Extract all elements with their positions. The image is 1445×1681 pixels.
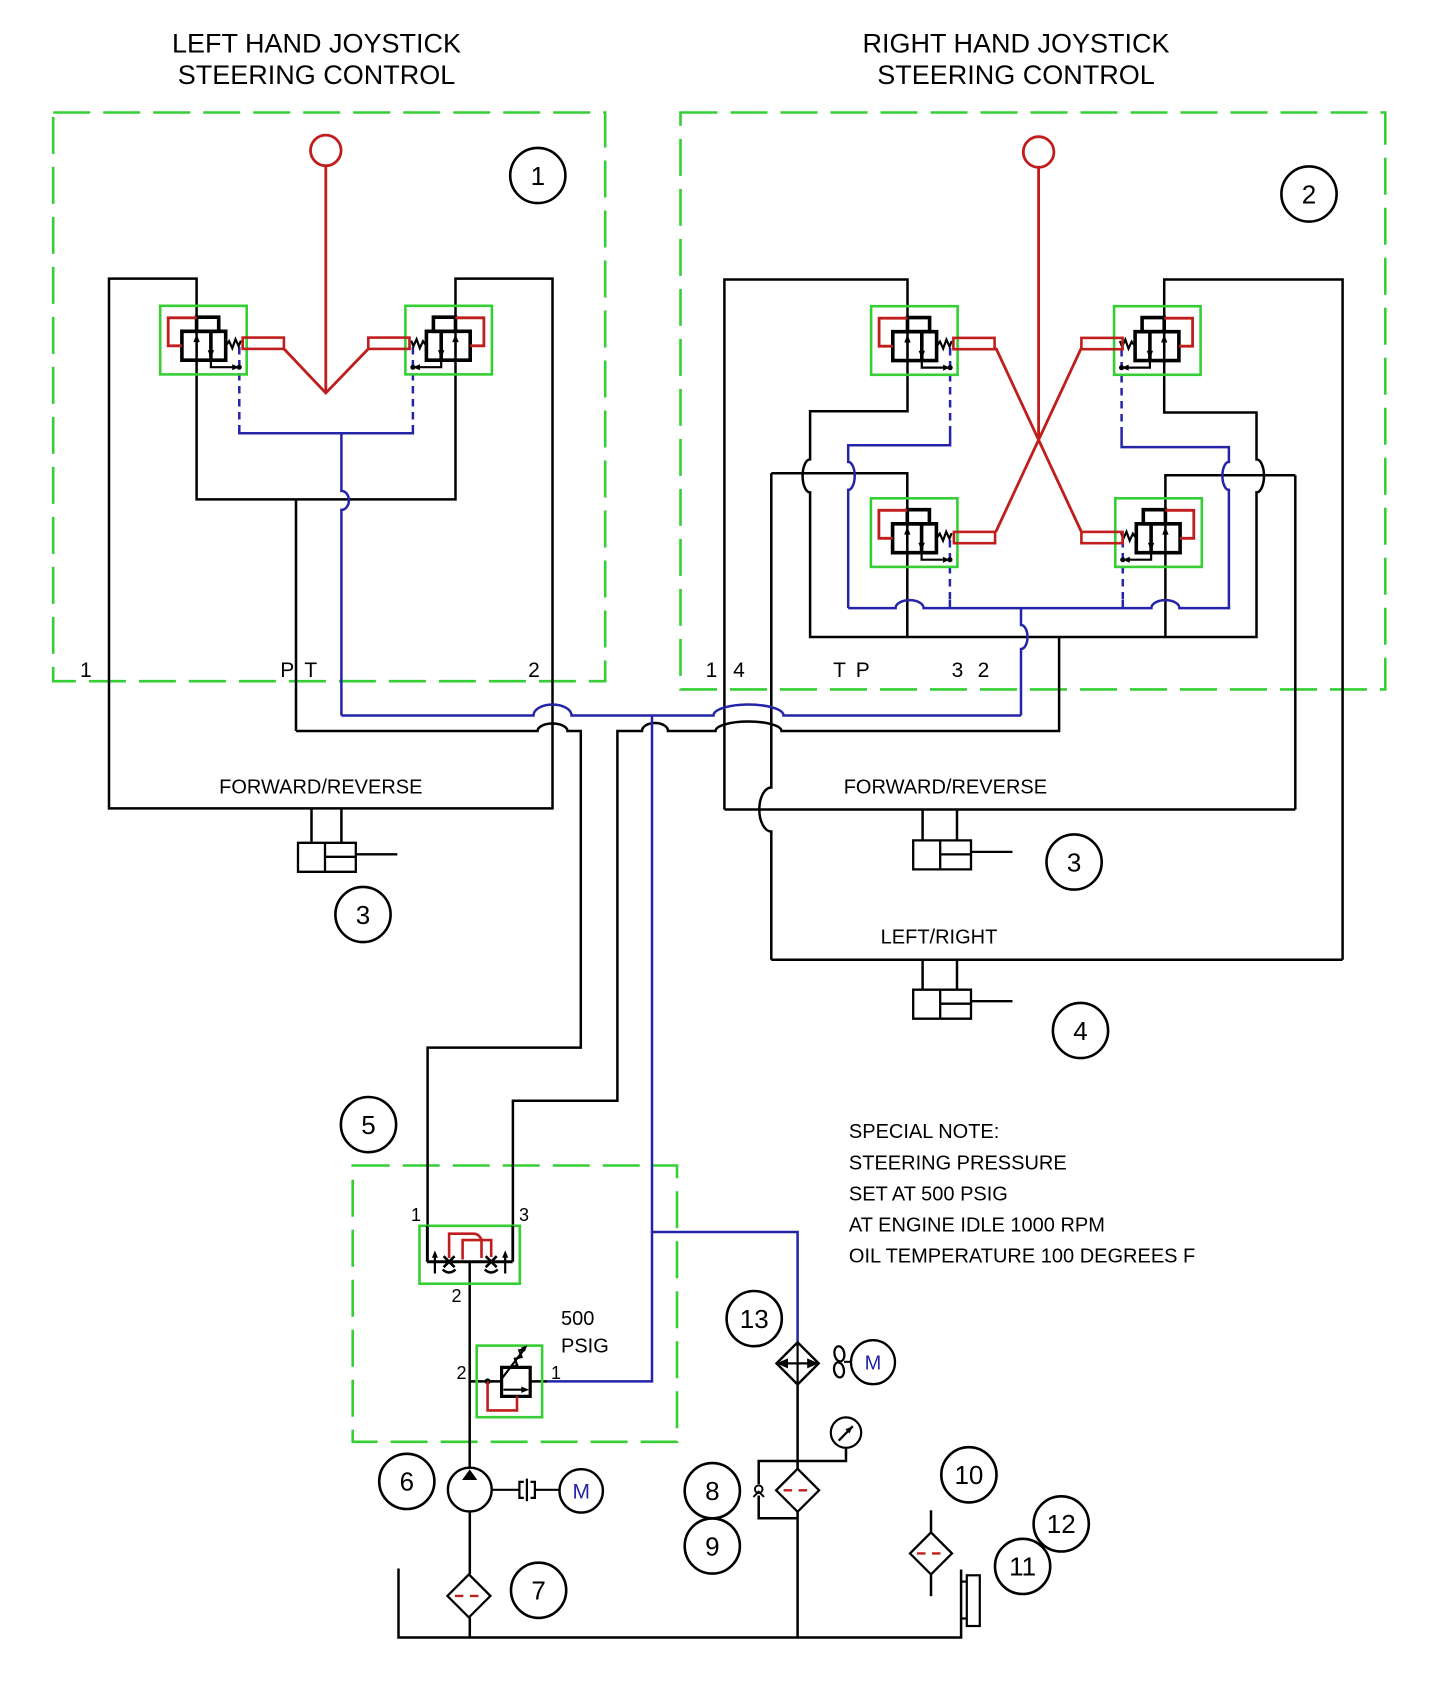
steering cylinder 3 left [298,843,397,872]
wire heat exchanger to filter8 [796,1385,799,1469]
left joystick assembly enclosure (dashed) [53,113,605,682]
pilot line right T riser [1021,608,1028,715]
wire right LEFT/RIGHT line [771,958,1342,961]
svg-text:12: 12 [1047,1509,1076,1539]
svg-text:STEERING PRESSURE: STEERING PRESSURE [849,1152,1067,1174]
balloon callout item10 [941,1447,996,1502]
wire left P port drop [295,499,298,731]
balloon callout item11 [995,1539,1050,1594]
svg-text:STEERING CONTROL: STEERING CONTROL [877,60,1155,90]
pilot line right TL drain (dashed) [949,348,952,432]
reservoir tank outline [399,1569,962,1638]
breather filler line upper [930,1510,933,1532]
pilot line shared T main [341,705,1021,716]
pressure gauge G1 [831,1417,861,1447]
shuttle valve item5 body [420,1226,520,1284]
wire pump to filter7 [469,1511,472,1574]
pressure reducing valve body (500 PSIG) [477,1345,542,1417]
svg-text:T: T [304,659,317,682]
svg-text:LEFT HAND JOYSTICK: LEFT HAND JOYSTICK [172,28,461,58]
wire filter bypass lower [759,1496,798,1519]
pilot valve L1 (left joystick left) [160,306,247,375]
joystick 2 BL rod [954,532,995,543]
balloon callout item3 right [1047,834,1102,889]
svg-text:1: 1 [551,1363,561,1383]
pilot valve L2 (left joystick right) [405,306,492,375]
wire left P supply to shuttle port1 [296,724,581,1262]
svg-text:FORWARD/REVERSE: FORWARD/REVERSE [844,777,1047,799]
wire right FR cylinder stub B [956,810,959,841]
svg-text:1: 1 [706,659,718,682]
return filter item8/9 diamond [776,1469,819,1512]
node junction dot port2/pilot [485,1378,491,1384]
joystick 2 stick [1037,167,1040,439]
pilot branch to heat exchanger [652,1232,798,1342]
wire reducing valve port2 link [470,1380,502,1383]
svg-text:2: 2 [1302,179,1316,209]
svg-text:2: 2 [528,659,540,682]
shuttle valve red passage outer [449,1234,481,1258]
valve block item5 enclosure (dashed) [353,1166,677,1442]
svg-text:7: 7 [531,1576,545,1606]
coupling symbol [519,1482,523,1498]
pilot line left valveL1 drain (dashed) [238,347,241,425]
balloon callout item6 [379,1454,434,1509]
balloon callout item5 [341,1097,396,1152]
steering cylinder 4 [913,990,1012,1019]
wire right LR cylinder stub A [921,960,924,990]
svg-text:2: 2 [456,1363,466,1383]
joystick 2 X-linkage b [996,348,1082,532]
joystick 1 left rod [243,338,284,349]
fan motor M2 [851,1340,895,1384]
balloon callout item8 [685,1463,740,1518]
svg-text:SET AT 500 PSIG: SET AT 500 PSIG [849,1183,1008,1205]
pilot line right BR drain tail [1122,600,1125,608]
svg-text:1: 1 [531,161,545,191]
svg-text:3: 3 [952,659,964,682]
wire right lower-left link [771,473,907,637]
svg-text:M: M [865,1352,882,1374]
svg-text:3: 3 [1067,847,1081,877]
svg-text:2: 2 [978,659,990,682]
wire right joystick upper outline [724,280,1342,960]
svg-text:OIL TEMPERATURE 100 DEGREES F: OIL TEMPERATURE 100 DEGREES F [849,1245,1195,1267]
check valve CV1 [753,1485,764,1497]
svg-text:4: 4 [1073,1016,1087,1046]
svg-text:2: 2 [451,1286,461,1306]
electric motor M1 [560,1469,603,1512]
joystick 2 X-linkage a [996,348,1082,532]
svg-text:STEERING CONTROL: STEERING CONTROL [178,60,456,90]
motor shaft [535,1489,560,1491]
pilot line right BL drain tail [949,600,952,608]
balloon callout item3 left [335,887,390,942]
pilot line right TR drain (dashed) [1120,349,1123,432]
pilot line right drain header [848,600,1230,608]
svg-text:13: 13 [740,1304,769,1334]
balloon callout item13 [727,1291,782,1346]
pilot supply main drop [547,716,652,1382]
wire filter8 to tank [796,1512,799,1638]
joystick 1 knob [311,135,342,166]
svg-text:11: 11 [1009,1552,1036,1582]
svg-text:6: 6 [400,1467,414,1497]
balloon callout item2 [1281,166,1336,221]
svg-text:500: 500 [561,1308,594,1330]
svg-text:AT ENGINE IDLE 1000 RPM: AT ENGINE IDLE 1000 RPM [849,1214,1105,1236]
pump shaft [492,1489,520,1491]
svg-text:4: 4 [733,659,745,682]
pilot line right TL drain corner [848,432,950,608]
wire left joystick body outline [109,279,553,809]
wire left cylinder stub A [310,808,313,843]
wire gauge stub [798,1448,846,1461]
balloon callout item1 [510,148,565,203]
hydraulic pump P1 [448,1468,492,1512]
wire right P supply to shuttle port3 [513,637,1059,1262]
pilot line right BL drain (dashed) [949,540,952,600]
pilot line left drain header [239,425,413,433]
wire reducing valve port1 black stub [530,1380,547,1383]
balloon callout item7 [511,1563,566,1618]
right joystick assembly enclosure (dashed) [681,113,1386,690]
cooling fan blades [833,1345,851,1378]
svg-text:1: 1 [411,1205,421,1225]
pilot line right TR drain corner [1122,432,1229,608]
oil level gauge LG1 [961,1575,980,1626]
svg-text:FORWARD/REVERSE: FORWARD/REVERSE [219,777,422,799]
svg-text:M: M [572,1481,590,1504]
wire left cylinder stub B [340,808,343,843]
wire right FORWARD/REVERSE line [724,808,1295,811]
svg-text:PSIG: PSIG [561,1335,609,1357]
pilot valve TR (right joystick) [1114,306,1201,375]
svg-text:1: 1 [80,659,92,682]
joystick 1 right rod [368,338,409,349]
svg-text:10: 10 [954,1460,983,1490]
joystick 1 V-linkage [284,349,368,393]
svg-text:RIGHT HAND JOYSTICK: RIGHT HAND JOYSTICK [862,28,1169,58]
joystick 2 knob [1023,137,1054,168]
wire right LR cylinder stub B [956,960,959,990]
balloon callout item12 [1034,1496,1089,1551]
pilot valve BR (right joystick) [1115,498,1202,567]
svg-text:P: P [280,659,294,682]
pilot line right BR drain (dashed) [1122,540,1125,600]
breather filler line lower [930,1574,933,1596]
balloon callout item9 [685,1518,740,1573]
pilot line left valveL2 drain (dashed) [412,347,415,425]
svg-text:8: 8 [705,1476,719,1506]
balloon callout item4 [1053,1003,1108,1058]
svg-text:T: T [833,659,846,682]
wire right FR right side [1294,475,1297,809]
shuttle valve red passage inner [463,1240,492,1259]
wire filter7 to tank [469,1618,472,1638]
suction strainer item7 diamond [447,1574,490,1617]
svg-text:3: 3 [356,900,370,930]
joystick 1 stick [324,166,327,393]
wire right FR cylinder stub A [921,810,924,841]
svg-text:3: 3 [519,1205,529,1225]
wire shuttle port2 to pump [468,1262,471,1468]
heat exchanger HX1 [777,1342,819,1384]
wire filter bypass upper [759,1461,798,1484]
wire right port4 drop with bow over FR line [759,473,771,959]
svg-text:9: 9 [705,1531,719,1561]
wire right lower-right link [1165,475,1295,637]
joystick 2 TL rod [953,338,994,349]
svg-text:P: P [856,659,870,682]
reducing valve red pilot [488,1381,517,1410]
pilot line left T drop [341,433,349,715]
pilot valve TL (right joystick) [871,306,958,375]
breather filter item10 diamond [910,1532,952,1574]
joystick 2 BR rod [1081,532,1122,543]
svg-text:LEFT/RIGHT: LEFT/RIGHT [881,927,998,949]
pilot valve BL (right joystick) [871,498,958,567]
steering cylinder 3 right [913,840,1012,869]
svg-text:SPECIAL NOTE:: SPECIAL NOTE: [849,1121,999,1143]
joystick 2 TR rod [1081,338,1122,349]
svg-text:5: 5 [361,1110,375,1140]
